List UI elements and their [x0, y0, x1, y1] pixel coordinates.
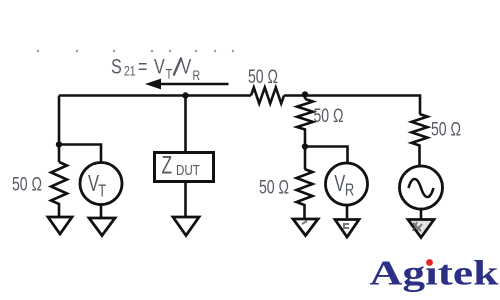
svg-text:50 Ω: 50 Ω [12, 173, 42, 195]
svg-text:DUT: DUT [176, 162, 200, 179]
svg-text:50 Ω: 50 Ω [248, 66, 278, 88]
svg-text:S: S [111, 55, 122, 79]
svg-text:V: V [181, 55, 192, 79]
svg-text:R: R [345, 181, 354, 201]
svg-text:Agıtek: Agıtek [370, 253, 499, 292]
svg-text:50 Ω: 50 Ω [259, 176, 289, 198]
svg-text:V: V [154, 55, 165, 79]
svg-text:Z: Z [161, 150, 172, 179]
svg-text:=: = [138, 55, 147, 79]
svg-text:21: 21 [124, 63, 136, 79]
svg-text:T: T [166, 66, 173, 82]
svg-text:R: R [193, 68, 201, 84]
svg-text:V: V [334, 171, 346, 196]
svg-text:50 Ω: 50 Ω [431, 118, 461, 140]
svg-text:50 Ω: 50 Ω [313, 105, 343, 127]
svg-text:T: T [98, 181, 106, 201]
